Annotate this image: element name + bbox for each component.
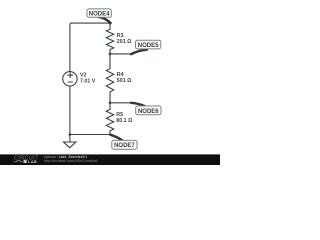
svg-text:R3: R3	[117, 33, 124, 39]
resistor R5	[106, 103, 113, 135]
svg-text:NODE7: NODE7	[114, 143, 135, 149]
watermark bar	[0, 154, 220, 165]
wire top loop	[70, 23, 110, 72]
resistor R4	[106, 54, 113, 103]
svg-text:LAB: LAB	[28, 159, 37, 164]
wire NODE5 stub	[110, 53, 134, 55]
svg-text:R5: R5	[116, 112, 123, 118]
flag NODE4	[87, 9, 111, 23]
flag NODE5	[131, 40, 161, 54]
resistor R3	[106, 29, 113, 54]
svg-text:R4: R4	[117, 72, 124, 78]
watermark logo wave + LAB	[14, 160, 24, 162]
wire NODE6 stub	[110, 102, 132, 104]
svg-text:NODE6: NODE6	[138, 109, 159, 115]
flag NODE7	[111, 135, 138, 149]
voltage source V2	[63, 72, 77, 86]
svg-text:NODE4: NODE4	[89, 11, 110, 17]
svg-text:http://circuitlab.com/c9t2e24z: http://circuitlab.com/c9t2e24zna5a6	[44, 159, 97, 163]
node ground junction dot	[69, 133, 72, 136]
wire left branch lower	[69, 86, 71, 142]
svg-text:201 Ω: 201 Ω	[117, 39, 132, 45]
svg-text:NODE5: NODE5	[138, 43, 159, 49]
wire bottom horizontal	[70, 134, 110, 136]
svg-text:80.1 Ω: 80.1 Ω	[116, 118, 133, 124]
node NODE6 junction dot	[109, 102, 112, 105]
ground	[64, 142, 76, 148]
svg-text:501 Ω: 501 Ω	[117, 78, 132, 84]
flag NODE6	[131, 103, 161, 115]
svg-text:7.01 V: 7.01 V	[80, 78, 96, 84]
node NODE5 junction dot	[109, 53, 112, 56]
